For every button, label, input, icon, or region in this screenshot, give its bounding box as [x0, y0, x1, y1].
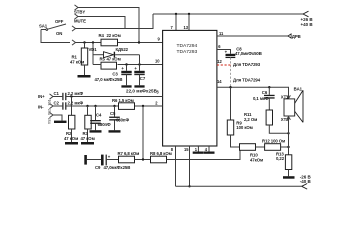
svg-text:XS2: XS2 [47, 109, 51, 115]
wire R8 to R10 node [167, 147, 241, 160]
junction R2 top [70, 95, 72, 97]
resistor R7 [118, 151, 140, 163]
junction C3 top [125, 63, 127, 65]
svg-text:47 кОм: 47 кОм [70, 60, 84, 65]
capacitor C1 [53, 91, 84, 100]
junction C6 top [268, 86, 270, 88]
wire feedback vertical [142, 106, 144, 160]
wire pin1 stub [197, 146, 199, 152]
capacitor C4 [90, 106, 111, 130]
capacitor C8 [225, 46, 262, 57]
wire pin14 output net [217, 87, 289, 99]
junction at pin13 drop [188, 13, 190, 15]
resistor R4 [99, 33, 121, 46]
svg-text:14: 14 [217, 79, 222, 84]
svg-text:MUTE: MUTE [74, 19, 86, 24]
svg-text:C5: C5 [110, 111, 116, 116]
svg-text:47кОм: 47кОм [250, 157, 263, 162]
svg-text:11: 11 [219, 31, 224, 36]
svg-text:XS3: XS3 [47, 118, 51, 124]
svg-text:10: 10 [155, 58, 160, 63]
svg-text:C4: C4 [96, 113, 102, 118]
wire pin3 net [66, 96, 162, 98]
node STBY connector arrow [75, 5, 79, 10]
svg-text:22 кОм: 22 кОм [107, 33, 121, 38]
ground R2 [65, 142, 78, 145]
svg-text:Для TDA7293: Для TDA7293 [233, 62, 261, 67]
svg-text:0,22: 0,22 [276, 156, 285, 161]
svg-text:0,1 мкФ: 0,1 мкФ [253, 96, 269, 101]
wire pin13 drop [188, 14, 190, 30]
svg-text:STBY: STBY [74, 10, 85, 15]
svg-text:SA1: SA1 [39, 24, 48, 29]
junction VD1/R5 left [92, 41, 94, 43]
ground R13 [283, 176, 295, 179]
svg-text:12: 12 [217, 59, 222, 64]
wire STBY net [78, 8, 139, 43]
svg-text:C2: C2 [54, 101, 60, 106]
connector XS3 ground [47, 112, 62, 124]
svg-text:47 кОм: 47 кОм [81, 136, 95, 141]
svg-text:47,0 мкФх25В: 47,0 мкФх25В [95, 77, 123, 82]
svg-text:ДРВ: ДРВ [292, 34, 301, 39]
svg-text:КД522: КД522 [116, 47, 129, 52]
resistor R12 [262, 139, 285, 151]
svg-text:R8 6,8 кОм: R8 6,8 кОм [150, 151, 172, 156]
capacitor C9 [87, 154, 130, 170]
wire R7 to R8 [135, 159, 151, 161]
ground C4 [90, 130, 102, 132]
switch SA1 [39, 19, 66, 36]
svg-text:C3: C3 [112, 71, 118, 76]
svg-text:15: 15 [184, 147, 189, 152]
svg-text:ON: ON [56, 31, 62, 36]
power rail -V [176, 185, 302, 187]
svg-text:13: 13 [184, 25, 189, 30]
capacitor C6 [253, 87, 275, 110]
svg-text:BA1: BA1 [294, 86, 303, 91]
svg-text:47,0мкФх50В: 47,0мкФх50В [235, 51, 262, 56]
terminal XT1 [281, 94, 291, 99]
wire ON contact to +V riser [76, 14, 154, 29]
capacitor C2 [53, 101, 84, 110]
resistor R13 [276, 147, 292, 176]
svg-text:OFF: OFF [55, 19, 64, 24]
svg-text:R6 1,5 кОм: R6 1,5 кОм [112, 98, 134, 103]
svg-text:R4: R4 [99, 33, 105, 38]
node SA1 lower contact arrow [72, 40, 76, 45]
junction C4 top [94, 105, 96, 107]
svg-text:C6: C6 [262, 90, 268, 95]
wire pin15 to -V rail [189, 146, 191, 186]
ground C3 [121, 85, 131, 87]
node SA1 ON contact arrow [72, 26, 76, 31]
svg-text:C9: C9 [95, 165, 101, 170]
capacitor C7 [126, 55, 158, 94]
junction C7 top [138, 63, 140, 65]
ground R1 [78, 75, 91, 78]
resistor R8 [150, 151, 172, 163]
svg-text:TDA7293: TDA7293 [177, 49, 198, 55]
connector IN- [38, 103, 53, 115]
connector IN+ [38, 94, 53, 106]
svg-text:IN+: IN+ [38, 94, 45, 99]
resistor R9 [227, 87, 252, 147]
wire XT2 to return node [288, 116, 290, 147]
svg-text:2,2 Ом: 2,2 Ом [244, 117, 257, 122]
wire pin7 drop [175, 14, 177, 30]
svg-text:2,2 мкФ: 2,2 мкФ [68, 91, 84, 96]
resistor R3 [81, 106, 95, 142]
wire pin6 [217, 50, 231, 54]
ground C9 (bar) [84, 155, 87, 165]
junction at pin7 drop [175, 13, 177, 15]
wire pin10 net [93, 64, 163, 66]
wire VD1/R5 left vertical [92, 43, 94, 65]
wire pin2 net [66, 105, 162, 107]
junction feedback bottom [142, 158, 144, 160]
wire R10 to R12 [256, 146, 265, 148]
capacitor C3 [95, 65, 132, 86]
svg-text:VD1: VD1 [89, 47, 98, 52]
svg-text:C7: C7 [140, 76, 146, 81]
resistor R11 [244, 110, 289, 133]
svg-text:2,2 мкФ: 2,2 мкФ [68, 101, 84, 106]
wire SA1 common [41, 30, 70, 43]
wire R12 to speaker node [281, 146, 289, 148]
wire C8 bootstrap (dashed) [230, 58, 232, 88]
svg-text:R12 100 Ом: R12 100 Ом [262, 139, 285, 144]
junction speaker return [287, 146, 289, 148]
node +V end connector [303, 11, 309, 17]
svg-text:680пФ: 680пФ [116, 118, 129, 123]
ground C7 [134, 85, 144, 87]
terminal XT2 [281, 117, 291, 123]
junction C5 top [113, 105, 115, 107]
resistor R10 [240, 144, 264, 163]
junction STBY/pin9 [138, 41, 140, 43]
svg-text:22,0 мкФх25В: 22,0 мкФх25В [126, 88, 158, 93]
wire pin11 DRV net [217, 35, 288, 37]
svg-text:47,0мкФх25В: 47,0мкФх25В [104, 165, 131, 170]
svg-text:TDA7294: TDA7294 [177, 43, 198, 49]
junction zobel/return [287, 132, 289, 134]
wire pin12 (dashed red, for TDA7293) [217, 64, 231, 66]
wire MUTE net [78, 17, 125, 29]
junction R1 top [83, 41, 85, 43]
svg-text:680пФ: 680пФ [98, 122, 111, 127]
resistor R2 [64, 97, 78, 143]
speaker BA1 [284, 86, 303, 122]
junction -V rail [188, 185, 190, 187]
ground XS3 [54, 121, 67, 123]
resistor R1 [70, 43, 88, 76]
junction feedback [142, 105, 144, 107]
junction bootstrap/R9 [229, 86, 231, 88]
wire pin8 to -V rail [175, 146, 177, 186]
svg-text:47 кОм: 47 кОм [64, 136, 78, 141]
svg-text:-40 В: -40 В [300, 179, 312, 184]
resistor R6 [112, 98, 135, 110]
resistor R5 [100, 56, 121, 69]
node MUTE connector arrow [75, 14, 79, 19]
ground C5 [109, 130, 121, 132]
svg-text:R5: R5 [100, 56, 106, 61]
node DRV label arrow [288, 34, 291, 38]
junction R3 top [86, 105, 88, 107]
svg-text:R7 6,8 кОм: R7 6,8 кОм [118, 151, 140, 156]
svg-text:+40 В: +40 В [301, 22, 314, 27]
ground pin1 [193, 152, 204, 154]
node -V end connector [302, 184, 308, 190]
svg-text:C1: C1 [54, 91, 60, 96]
svg-text:100 кОм: 100 кОм [236, 125, 252, 130]
svg-text:Для TDA7294: Для TDA7294 [233, 77, 261, 82]
ground pin4 [204, 152, 215, 154]
wire pin9 net [76, 42, 163, 44]
svg-text:IN-: IN- [38, 104, 44, 109]
wire pin4 stub [208, 146, 210, 152]
diode VD1 [89, 47, 140, 58]
svg-text:47 кОм: 47 кОм [107, 56, 121, 61]
IC U1 TDA7294/TDA7293 [163, 30, 217, 146]
capacitor C5 [109, 106, 129, 130]
ground R3 [81, 142, 94, 145]
power rail +V [153, 13, 303, 15]
